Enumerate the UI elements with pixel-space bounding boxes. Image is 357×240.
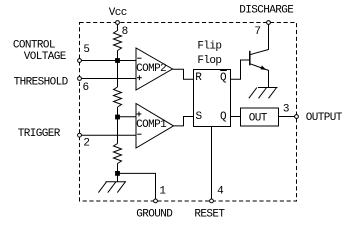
op-amp comparator COMP2	[136, 48, 173, 90]
resistor R3	[114, 144, 122, 164]
svg-text:Q: Q	[220, 72, 227, 84]
svg-text:OUT: OUT	[249, 113, 268, 125]
wire collector to pin7 DISCHARGE	[268, 23, 270, 50]
pin terminal 6 THRESHOLD	[78, 77, 82, 81]
svg-text:2: 2	[83, 138, 89, 150]
svg-text:3: 3	[283, 103, 289, 115]
junction node B	[115, 115, 120, 120]
wire node C to pin1 GROUND	[118, 173, 156, 201]
pin terminal 8 Vcc	[116, 21, 120, 25]
wire COMP1 output to flip-flop S input	[174, 117, 194, 126]
ground symbol (chassis, at transistor emitter)	[249, 88, 278, 99]
wire R3 to node C	[117, 164, 119, 174]
svg-text:Flop: Flop	[197, 55, 221, 67]
svg-text:RESET: RESET	[194, 208, 225, 220]
pin terminal 7 DISCHARGE	[267, 21, 271, 25]
transistor Q1 emitter stroke with arrow	[250, 64, 268, 71]
svg-text:GROUND: GROUND	[136, 208, 173, 220]
svg-text:VOLTAGE: VOLTAGE	[24, 51, 67, 63]
svg-text:CONTROL: CONTROL	[13, 40, 55, 52]
transistor Q1 base bar	[249, 51, 251, 66]
svg-text:Vcc: Vcc	[109, 7, 127, 19]
wire pin5 CONTROL VOLTAGE to COMP2 minus input	[80, 60, 137, 62]
output buffer OUT box	[241, 108, 279, 126]
wire R1 to node A	[117, 51, 119, 61]
junction node C	[115, 171, 120, 176]
svg-text:4: 4	[217, 186, 224, 198]
pin terminal 1 GROUND	[154, 199, 158, 203]
flip-flop U1 box	[194, 70, 231, 127]
svg-text:R: R	[195, 72, 202, 84]
pin terminal 2 TRIGGER	[78, 133, 82, 137]
ground symbol (chassis, lower-left)	[98, 182, 126, 193]
svg-text:COMP2: COMP2	[136, 63, 166, 75]
wire flip-flop to pin4 RESET	[211, 127, 213, 202]
svg-text:COMP1: COMP1	[136, 119, 167, 131]
wire emitter to ground symbol	[268, 70, 270, 88]
svg-text:S: S	[196, 111, 203, 123]
wire flip-flop Q output to OUT buffer	[231, 116, 241, 118]
svg-text:DISCHARGE: DISCHARGE	[239, 4, 294, 16]
junction node A	[115, 58, 120, 63]
pin terminal 4 RESET	[210, 199, 214, 203]
wire node B to COMP1 plus input	[118, 116, 137, 118]
svg-text:Q: Q	[220, 111, 227, 123]
wire node C to ground symbol	[117, 173, 119, 181]
svg-text:7: 7	[254, 26, 260, 38]
svg-text:OUTPUT: OUTPUT	[306, 112, 343, 124]
svg-text:TRIGGER: TRIGGER	[18, 128, 61, 140]
wire node A to R2	[117, 61, 119, 88]
label CONTROL VOLTAGE	[13, 40, 67, 63]
COMP2 minus symbol	[137, 57, 141, 59]
label Flip Flop	[197, 41, 221, 68]
flip-flop Qbar overline	[220, 70, 227, 72]
transistor Q1 collector stroke	[250, 50, 268, 55]
COMP1 plus symbol	[137, 112, 142, 117]
svg-text:6: 6	[83, 82, 89, 94]
wire node B to R3	[117, 117, 119, 144]
wire Vcc lead to R1	[117, 23, 119, 31]
IC package boundary (dashed)	[80, 23, 297, 202]
svg-text:1: 1	[159, 185, 166, 197]
svg-text:8: 8	[122, 26, 128, 38]
svg-text:5: 5	[83, 44, 89, 56]
COMP2 plus symbol	[137, 75, 142, 80]
svg-text:THRESHOLD: THRESHOLD	[14, 77, 69, 89]
resistor R2	[114, 87, 122, 107]
COMP1 minus symbol	[137, 133, 141, 135]
pin terminal 3 OUTPUT	[295, 115, 299, 119]
op-amp comparator COMP1	[136, 104, 174, 149]
resistor R1	[114, 31, 122, 51]
wire flip-flop Qbar output to transistor base	[231, 60, 251, 79]
pin terminal 5 CONTROL VOLTAGE	[78, 59, 82, 63]
wire COMP2 output to flip-flop R input	[173, 69, 194, 79]
wire OUT buffer to pin3 OUTPUT	[279, 116, 297, 118]
svg-text:Flip: Flip	[197, 41, 221, 53]
wire pin2 TRIGGER to COMP1 minus input	[80, 134, 137, 136]
wire pin6 THRESHOLD to COMP2 plus input	[80, 78, 137, 80]
wire R2 to node B	[117, 107, 119, 117]
